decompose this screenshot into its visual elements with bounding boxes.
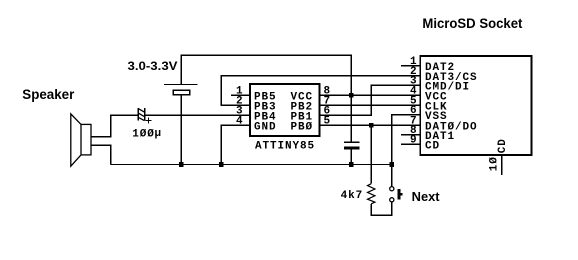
wire socket pin6 VSS down to ground rail: [392, 115, 421, 165]
wire C1 to ATtiny pin3 PB4: [145, 114, 250, 116]
svg-text:MicroSD Socket: MicroSD Socket: [422, 15, 522, 31]
wire MISO ATtiny pin5 PB0 to socket pin7 DAT0/DO: [320, 124, 421, 126]
wire speaker bottom terminal to ground rail: [91, 145, 111, 164]
svg-text:Next: Next: [412, 190, 441, 204]
svg-text:4: 4: [236, 116, 244, 128]
junction VCC node: [349, 93, 354, 98]
U1 pin numbers left 1-4: [236, 86, 244, 128]
wire resistor bottom to button bottom: [371, 202, 392, 216]
svg-text:GND: GND: [254, 122, 277, 134]
junction PB0 node to resistor: [369, 123, 374, 128]
svg-text:4k7: 4k7: [341, 190, 364, 202]
U1 pin numbers right 8-5: [324, 86, 332, 128]
wire ATtiny pin4 GND to ground rail: [221, 125, 250, 164]
wire PB0 node down to resistor R1: [370, 125, 372, 183]
resistor R1 4k7: [368, 184, 375, 204]
speaker LS1: [71, 114, 91, 166]
J1 pin labels: [425, 62, 478, 153]
junction decoupling cap to ground rail: [349, 162, 354, 167]
stub J1 pin10 CD switch: [501, 155, 503, 175]
wire MOSI ATtiny pin6 PB1 to socket pin3 CMD/DI: [320, 85, 421, 115]
U1 pin labels left PB5 PB3 PB4 GND: [254, 91, 277, 133]
junction battery to ground rail: [179, 162, 184, 167]
svg-text:ATTINY85: ATTINY85: [255, 140, 315, 152]
J1 pin numbers 1-9: [410, 56, 418, 147]
wire CS ATtiny pin2 PB3 to socket pin2 DAT3/CS: [221, 76, 420, 106]
wire ground rail junction down to button: [391, 165, 393, 187]
IC U1 ATtiny85 body: [250, 84, 320, 136]
svg-text:1Ø: 1Ø: [488, 156, 500, 171]
junction GND wire to rail: [219, 162, 224, 167]
svg-text:CD: CD: [425, 141, 440, 153]
battery B1: [164, 85, 197, 95]
connector J1 MicroSD socket body: [420, 56, 531, 155]
svg-text:Speaker: Speaker: [22, 87, 75, 102]
junction VSS wire ground rail: [390, 162, 395, 167]
wire VCC ATtiny pin8 to socket pin4: [320, 94, 421, 96]
svg-text:PBØ: PBØ: [291, 122, 314, 134]
svg-text:5: 5: [324, 116, 332, 128]
svg-text:CD: CD: [497, 138, 509, 153]
wire battery positive to VCC node: [181, 55, 351, 95]
stub J1 pin8 DAT1: [401, 134, 420, 136]
U1 pin labels right VCC PB2 PB1 PB0: [291, 91, 314, 133]
capacitor C2 decoupling 100n: [344, 95, 360, 164]
svg-text:1ØØ: 1ØØ: [132, 128, 155, 140]
ground rail wire: [111, 164, 392, 166]
wire speaker top terminal riser: [91, 115, 138, 136]
stub U1 pin1 PB5: [231, 94, 250, 96]
svg-text:3.0-3.3V: 3.0-3.3V: [128, 59, 178, 73]
svg-text:µ: µ: [155, 128, 163, 140]
label C1 value 100u: [132, 128, 162, 140]
capacitor C1 100u electrolytic: [138, 108, 151, 124]
wire battery negative to ground rail: [180, 95, 182, 165]
stub J1 pin1 DAT2: [401, 65, 420, 67]
pushbutton SW1: [390, 187, 403, 202]
stub J1 pin9 CD: [401, 143, 420, 145]
svg-text:9: 9: [410, 135, 418, 147]
wire SCK ATtiny pin7 PB2 to socket pin5 CLK: [320, 104, 421, 106]
